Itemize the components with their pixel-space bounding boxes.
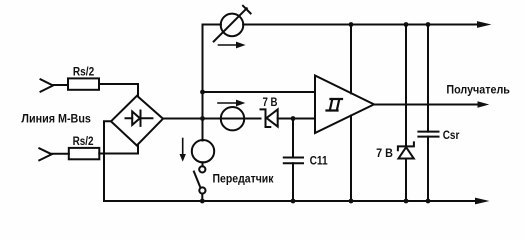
wire: zener branch vertical	[405, 25, 407, 202]
node: Csr ground	[426, 199, 431, 204]
wire	[203, 24, 221, 26]
node: top rail / Csr	[426, 22, 431, 27]
wire: upper comparator input	[203, 91, 316, 93]
arrow: CS2 current direction	[218, 102, 237, 104]
wire	[52, 153, 69, 155]
node: top rail / comparator supply	[349, 22, 354, 27]
node: comparator ground	[349, 199, 354, 204]
zener diode VD2 7V (shunt)	[398, 142, 414, 150]
svg-text:Rs/2: Rs/2	[73, 134, 94, 148]
wire	[201, 194, 203, 201]
resistor Rs/2 (bottom)	[69, 148, 100, 159]
hysteresis symbol	[327, 99, 343, 111]
node: transmitter ground	[200, 199, 205, 204]
svg-text:Линия M-Bus: Линия M-Bus	[21, 112, 91, 126]
wire: C11 to ground	[292, 163, 294, 201]
wire: node to C11	[292, 119, 294, 158]
comparator U1 (Schmitt trigger)	[315, 76, 374, 134]
resistor Rs/2 (top)	[68, 78, 99, 89]
wire	[99, 84, 138, 96]
node: zener ground	[404, 199, 409, 204]
adjustable tick on CS1	[243, 6, 251, 14]
wire	[53, 84, 68, 86]
wire: comparator bottom to ground	[350, 116, 352, 201]
svg-text:C11: C11	[310, 153, 328, 167]
arrowhead receiver	[478, 101, 490, 107]
current source CS1 (adjustable)	[221, 14, 244, 37]
wire: bridge right corner to main node	[163, 118, 261, 120]
svg-text:Rs/2: Rs/2	[73, 64, 95, 78]
switch S1 (transmitter)	[199, 166, 205, 172]
svg-text:7 В: 7 В	[376, 146, 393, 160]
arrowhead ground bus	[475, 198, 490, 205]
terminal: M-Bus line B	[39, 148, 51, 160]
svg-text:Передатчик: Передатчик	[213, 172, 275, 186]
arrow: transmitter current direction (down)	[182, 139, 184, 156]
wire	[202, 162, 204, 166]
wire: main vertical bus	[202, 25, 204, 141]
top supply rail	[243, 24, 478, 26]
capacitor C11	[284, 158, 303, 164]
zener diode VD1 7V (series)	[261, 109, 271, 127]
capacitor Csr	[418, 132, 438, 137]
bridge rectifier D1	[111, 96, 163, 146]
wire	[278, 118, 315, 120]
node: top rail / zener	[404, 22, 409, 27]
terminal: M-Bus line A	[41, 79, 54, 91]
svg-text:Получатель: Получатель	[446, 82, 510, 96]
arrow: CS1 current direction	[219, 44, 238, 46]
transmitter current source CS3	[192, 140, 214, 162]
wire: bridge left corner to ground rail	[104, 121, 111, 201]
wire: comparator output to receiver	[374, 104, 479, 106]
current source CS2	[221, 107, 244, 130]
arrowhead top rail	[477, 21, 491, 28]
ground bus (bottom rail)	[104, 200, 477, 202]
diode inside bridge	[126, 111, 153, 126]
wire: supply to comparator top	[350, 25, 352, 94]
node: C11 / lower comparator input	[291, 116, 296, 121]
node: bridge output	[200, 116, 205, 121]
svg-text:Csr: Csr	[443, 128, 460, 142]
svg-text:7 В: 7 В	[263, 95, 278, 109]
node: C11 ground	[291, 199, 296, 204]
wire	[99, 146, 138, 154]
wire: Csr branch vertical	[427, 25, 429, 202]
node: upper comparator branch	[200, 90, 205, 95]
